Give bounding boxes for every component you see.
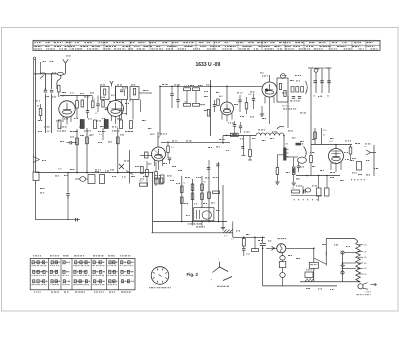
title block text [279, 41, 282, 44]
spec label 34 [140, 178, 142, 181]
wire V3 pins [221, 114, 223, 120]
capacitor C2 [50, 89, 53, 91]
wire cap above 2 [240, 122, 242, 126]
switch block S2b [100, 175, 105, 184]
resistor R10 [207, 110, 210, 117]
capacitor above feed 2 [239, 125, 242, 127]
capacitor C6 [119, 108, 122, 110]
resistor R1b [81, 100, 84, 107]
lamp filament [281, 245, 283, 253]
spec label 43 [203, 202, 205, 205]
spec label 39 [170, 179, 171, 182]
label row under tubes 2 [70, 130, 72, 133]
title block text [35, 41, 36, 44]
value label 16 [280, 74, 281, 77]
junction coil feed [226, 135, 228, 137]
value label 1 [40, 72, 42, 75]
wire coil down [283, 136, 285, 148]
spec label 26 [42, 159, 44, 162]
coil pack pad 40 [121, 261, 123, 264]
wire tap link 2 [343, 262, 357, 264]
junction psu [254, 248, 255, 249]
wire r2 v1 [76, 129, 78, 173]
value label 14 [250, 91, 252, 94]
coil pack pad mark 31 [103, 270, 105, 273]
coil pack pad 1 [32, 261, 34, 264]
label row under tubes 1 [57, 130, 59, 133]
capacitor C17b [327, 80, 331, 82]
spec label 45 [186, 214, 188, 217]
resistor R26 [201, 193, 204, 200]
label lower left b [40, 192, 42, 195]
speaker box psu [305, 272, 313, 278]
wire R28 leads [276, 155, 278, 168]
coil pack outline [30, 258, 135, 289]
value label 28 [219, 138, 221, 141]
value label 63 [318, 95, 319, 98]
wire M gnd rail [222, 185, 224, 227]
anode blob V4 [265, 89, 268, 92]
coil pack pad mark 20 [83, 261, 84, 264]
spec label 93 [142, 119, 145, 122]
wire C11 leads [253, 94, 255, 99]
coil pack pad dot 30 [94, 271, 95, 272]
coil pack pad dot 2 [38, 262, 39, 263]
junction dot 22 [262, 248, 264, 250]
label lower left a [40, 187, 43, 190]
wire R6-R8 link [186, 91, 188, 104]
svg-text:e.s: e.s [231, 239, 234, 241]
spec label 12 [88, 118, 90, 121]
wire V2 stem [115, 86, 117, 101]
IF cluster bracket [306, 81, 308, 94]
spec label 5 [100, 84, 102, 87]
title block column rule 9 [261, 40, 263, 50]
coil pack pad dot 42 [122, 271, 123, 272]
coil pack pad dot 19 [75, 262, 76, 263]
wire input coil tail [56, 85, 58, 90]
dropper entry [355, 239, 358, 242]
coil pack row mark 43 [120, 274, 122, 277]
resistor R2 [92, 101, 95, 108]
diode D1 mark [119, 164, 124, 169]
coil pack row mark 3 [31, 264, 32, 267]
wire psu v3 [262, 237, 264, 243]
wire osc vertical 4 [140, 100, 142, 113]
title block column rule 14 [365, 40, 367, 50]
title block text [332, 41, 334, 44]
socket pin 7 [161, 268, 164, 270]
tick hang 2 [248, 159, 252, 161]
coil pack pad mark 4 [36, 270, 38, 273]
label row under tubes 5 [112, 130, 113, 133]
lamp label [278, 237, 280, 240]
value label 44 [213, 176, 215, 179]
ground G1 [221, 227, 225, 229]
resistor R25 [191, 193, 194, 200]
junction input 1 [45, 73, 47, 75]
capacitor C30 on lower bus [75, 218, 77, 221]
coil pack pad 26 [79, 280, 81, 283]
title block column rule 5 [171, 40, 173, 50]
value label 35 [310, 151, 311, 154]
svg-text:2M: 2M [285, 144, 288, 146]
wire drop to cap [67, 173, 69, 193]
component box right [357, 162, 362, 171]
title block text [144, 45, 146, 48]
spec label 86 [306, 287, 307, 290]
coil pack pad 34 [109, 261, 111, 264]
ground V4 [260, 113, 264, 115]
detector ellipse [298, 157, 307, 163]
wire C19 leads [169, 160, 171, 164]
title block text [344, 48, 345, 51]
coil pack divider 4 [90, 258, 92, 289]
spec label 84 [334, 244, 335, 247]
socket pin 5 [153, 271, 155, 274]
capacitor C18 [66, 193, 69, 195]
wire R19c leads [155, 162, 157, 172]
connector arrow left [33, 157, 40, 160]
coil pack pad dot 18 [64, 281, 65, 282]
title block column rule 13 [351, 40, 353, 50]
coil pack pad 21 [85, 261, 87, 264]
resistor R9 [193, 103, 200, 106]
wire R19b leads [146, 161, 148, 170]
resistor R29 fill [293, 168, 295, 173]
value label 5 [100, 96, 102, 99]
coil pack pad mark 40 [124, 261, 126, 264]
wire band switch drop 1b [44, 94, 46, 133]
value label 58 [96, 120, 98, 123]
coil pack pad dot 20 [81, 262, 82, 263]
coil pack pad dot 38 [109, 281, 110, 282]
junction dot 15 [226, 86, 228, 88]
coil pack pad 27 [85, 280, 87, 283]
spec label 38 [178, 169, 179, 172]
coil pack row mark 17 [62, 274, 64, 277]
title block text [278, 48, 279, 51]
resistor R30 [314, 132, 317, 139]
coil pack pad dot 21 [86, 262, 87, 263]
spec label 66 [296, 178, 299, 181]
dropper nodes [357, 251, 358, 252]
svg-text:5 V: 5 V [224, 236, 228, 238]
coil pack pad 28 [93, 261, 95, 264]
wire C20 leads [298, 161, 300, 166]
wire V5 grid [140, 155, 152, 157]
caps upper M [155, 178, 159, 184]
coil pack pad 31 [100, 270, 102, 273]
spec label 11 [74, 117, 75, 120]
wire antenna into coil [63, 73, 65, 74]
socket pin 3 [156, 281, 159, 283]
title block text [106, 45, 108, 48]
coil pack pad dot 12 [51, 271, 52, 272]
wire input top bus [34, 73, 58, 75]
spec label 32 [122, 176, 123, 179]
wire V7 stem [335, 145, 337, 149]
spec label 55 [300, 140, 302, 143]
resistor R input [58, 85, 61, 92]
value label 38 [365, 143, 367, 146]
chassis hatch [224, 230, 227, 233]
title block text [138, 41, 140, 44]
spec label 71 [204, 90, 206, 93]
antenna A1 [65, 63, 67, 73]
coil pack divider 3 [71, 258, 73, 289]
title block column rule 4 [149, 40, 151, 50]
spec label 28 [64, 174, 66, 177]
resistor R3 [102, 101, 104, 108]
spec label 80 [268, 240, 269, 243]
wire M v5 upper [218, 162, 220, 176]
wire M mid bus [153, 221, 227, 223]
plug arrows [371, 284, 377, 286]
wire R2 riser [92, 96, 94, 102]
coil pack pad mark 10 [54, 261, 56, 264]
spec label 54 [292, 137, 295, 140]
wire C8 leads [177, 86, 179, 99]
spec label 61 [300, 166, 302, 169]
junction dot 7 [192, 221, 194, 223]
wire C5b stub [97, 96, 99, 105]
spec label 56 [312, 138, 314, 141]
title block text [309, 41, 311, 44]
title block text [178, 48, 180, 51]
wire M v3 [201, 176, 203, 208]
coil pack row mark 29 [92, 264, 95, 267]
wire M v4 [208, 179, 210, 222]
wire under C18 [67, 195, 69, 198]
value label 39 [155, 174, 156, 177]
wire M v2 [192, 179, 194, 222]
coil pack pad dot 9 [43, 281, 44, 282]
coil pack pad dot 16 [64, 262, 65, 263]
ground R29 [292, 182, 296, 184]
coil pack divider 2 [60, 258, 62, 289]
svg-text:145: 145 [364, 257, 367, 259]
junction dot 14 [210, 86, 212, 88]
wire diode rail [129, 150, 131, 184]
title block text [128, 48, 130, 51]
wire T down [313, 268, 315, 281]
coil pack pad 45 [127, 280, 129, 283]
wire drop D4 [328, 68, 330, 93]
value label 45 [70, 168, 72, 171]
coil pack row mark 27 [73, 283, 76, 286]
junction dot 8 [201, 221, 203, 223]
IF secondary ticks [286, 149, 288, 151]
resistor R on feed fill [232, 134, 237, 135]
junction dot 23 [335, 144, 337, 146]
coil pack row mark 13 [50, 274, 52, 277]
wire R33 lead [243, 237, 245, 238]
capacitor C13 [298, 96, 301, 98]
lower AVC bus [36, 219, 81, 221]
title block text [172, 41, 174, 44]
socket pin 2 [161, 281, 164, 283]
title block text [199, 41, 201, 44]
switch block S2a [88, 175, 95, 184]
resistor R on feed [231, 133, 239, 136]
coil can 1 inner [104, 89, 106, 95]
value label 17 [295, 74, 297, 77]
wire V2 pins [111, 116, 113, 122]
capacitor hang 1 [241, 146, 244, 148]
coil pack pad dot 31 [100, 271, 101, 272]
svg-text:200: 200 [364, 268, 367, 270]
resistor R24 [181, 197, 184, 204]
coil pack pad mark 3 [46, 261, 48, 264]
coil pack pad 35 [113, 261, 115, 264]
wire C10 leads [239, 95, 241, 100]
value label 33 [288, 130, 291, 133]
title block text [46, 41, 47, 44]
title block text [236, 41, 237, 44]
coil hook [277, 126, 284, 129]
spec label 35 [148, 163, 151, 166]
resistor R16 [86, 137, 89, 144]
coil pack pad mark 27 [89, 280, 91, 283]
wire R7-R9 link [195, 91, 197, 104]
svg-text:Fig. 2: Fig. 2 [187, 272, 199, 277]
wire tap link 3 [343, 267, 357, 269]
spec label 46 [216, 209, 218, 212]
wire out v1 [314, 128, 316, 145]
coil can box 2 [116, 87, 128, 100]
resistor R5 [39, 109, 42, 116]
value label 11 [198, 84, 200, 87]
svg-text:2x50: 2x50 [246, 254, 250, 256]
coil pack pad 23 [79, 270, 81, 273]
resistor R15 [76, 138, 79, 145]
wire psu v2 [254, 237, 256, 248]
junction dot 12 [171, 86, 173, 88]
svg-text:10: 10 [313, 96, 315, 98]
wire rect link [282, 260, 284, 261]
coil pack pad dot 27 [86, 281, 87, 282]
resistor R22 [201, 184, 204, 191]
wire V1 pins [62, 117, 64, 123]
junction dot 13 [177, 86, 179, 88]
switch arm 3 [223, 277, 232, 281]
title block column rule 3 [129, 40, 131, 50]
antenna A2 small [111, 84, 113, 87]
junction dot 6 [181, 221, 183, 223]
wire V5 stem [157, 132, 159, 147]
value label 9 [174, 84, 176, 87]
spec label 83 [322, 243, 324, 246]
coil pack pad 25 [74, 280, 76, 283]
coil pack pad mark 28 [96, 261, 97, 264]
coil pack pad 32 [94, 280, 96, 283]
wire M bottom bus [152, 232, 234, 234]
wire V4 pins [264, 97, 266, 104]
wire mid drop left [159, 86, 161, 135]
coil pack pad dot 29 [100, 262, 101, 263]
value label 52 [312, 185, 314, 188]
wire left rail lower [35, 181, 37, 220]
switch arm 1 [213, 267, 220, 273]
label M bus marks [188, 223, 189, 226]
wire left rail twin [33, 60, 35, 173]
label in box 2 [283, 108, 285, 111]
wire C17 stub [67, 142, 71, 144]
spec label 89 [350, 159, 352, 162]
coil pack pad 30 [93, 270, 95, 273]
wire V5 pins [154, 160, 156, 166]
wire left rail [35, 60, 37, 173]
spec label 52 [262, 139, 265, 142]
resistor R32 [292, 190, 300, 193]
junction dot 26 [306, 175, 308, 177]
capacitor C7 [170, 93, 173, 95]
resistor R27 [213, 191, 220, 194]
spec label 57 [330, 137, 333, 140]
spec label 70 [262, 117, 264, 120]
title block text [299, 48, 301, 51]
label row under tubes 3 [84, 130, 86, 133]
title block text [99, 41, 101, 44]
wire r2 v2 [86, 128, 88, 173]
coil pack pad dot 25 [75, 281, 76, 282]
oscillator coil box [130, 87, 139, 100]
spec label 19 [98, 141, 100, 144]
spec label 75 [290, 79, 293, 82]
svg-text:30: 30 [292, 188, 294, 190]
spec label 36 [163, 162, 165, 165]
coil pack pad 36 [109, 270, 111, 273]
value label 34 [298, 143, 301, 146]
capacitor C21 [303, 190, 305, 193]
wire V4 stem top [269, 75, 271, 82]
resistor R34 [252, 249, 259, 252]
wire V4 out down [269, 106, 271, 124]
tube V4 IF [262, 82, 277, 97]
tube V7 output [329, 149, 344, 164]
socket pin 1 [165, 277, 167, 280]
title block text [254, 48, 255, 51]
coil pack pad mark 18 [66, 280, 67, 283]
det ground bus [296, 175, 340, 177]
resistor R8 [184, 103, 191, 106]
spec label 27 [55, 175, 57, 178]
coil can 2 inner cap [120, 89, 123, 91]
coil pack pad dot 44 [122, 281, 123, 282]
spec label 29 [95, 170, 97, 173]
coil pack top labels [33, 254, 34, 257]
svg-text:452 kc/s: 452 kc/s [282, 106, 289, 108]
capacitor C23b [263, 243, 266, 245]
coil pack pad 6 [43, 270, 45, 273]
coil pack pad mark 22 [77, 270, 78, 273]
spec label 18 [90, 134, 91, 137]
value label 49 [135, 165, 137, 168]
resistor R20 [181, 186, 184, 193]
junction dot 10 [218, 221, 220, 223]
coil pack row mark 31 [92, 274, 94, 277]
title block text [265, 48, 267, 51]
det top cluster [296, 143, 302, 146]
spec label 23 [52, 96, 53, 99]
coil pack pad mark 38 [112, 280, 114, 283]
title block text [163, 41, 165, 44]
spec label 13 [102, 117, 103, 120]
coil pack pad 22 [74, 270, 76, 273]
coil can box 1 [101, 87, 110, 100]
psu bottom bus 2 [300, 281, 360, 283]
